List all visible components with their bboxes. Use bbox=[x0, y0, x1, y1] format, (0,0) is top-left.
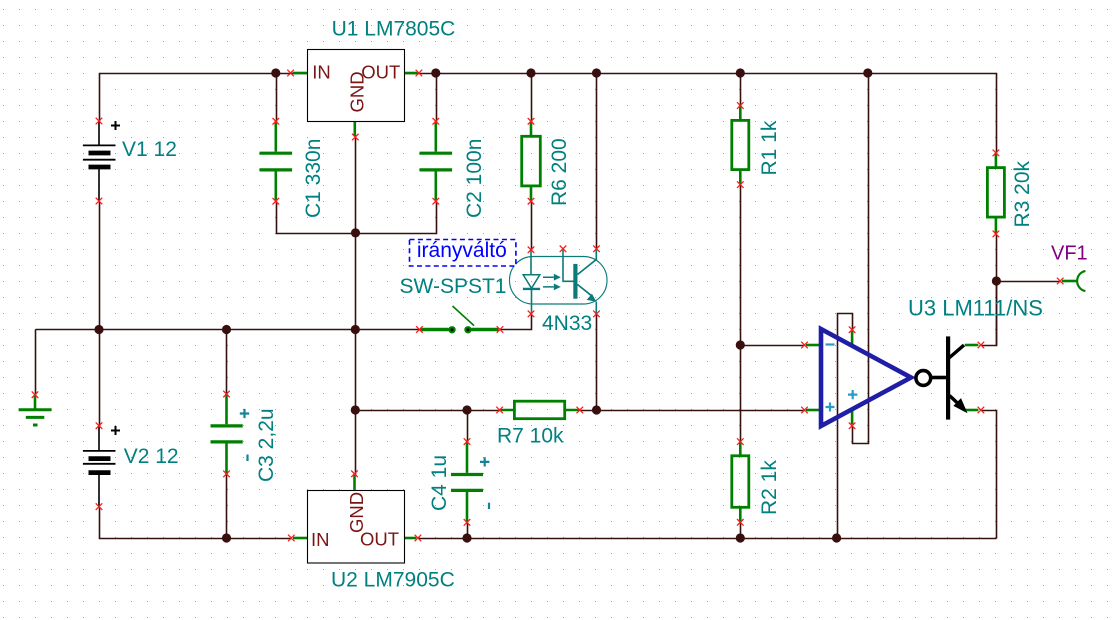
svg-text:GND: GND bbox=[346, 492, 367, 533]
svg-text:U3 LM111/NS: U3 LM111/NS bbox=[908, 296, 1043, 321]
svg-text:GND: GND bbox=[347, 71, 368, 112]
svg-text:R2 1k: R2 1k bbox=[758, 460, 781, 515]
svg-text:V2 12: V2 12 bbox=[124, 445, 179, 468]
svg-text:irányváltó: irányváltó bbox=[417, 239, 507, 262]
svg-text:R3 20k: R3 20k bbox=[1011, 160, 1034, 227]
svg-text:R6 200: R6 200 bbox=[548, 138, 571, 206]
svg-text:IN: IN bbox=[311, 529, 330, 550]
svg-text:C2 100n: C2 100n bbox=[463, 139, 486, 218]
svg-text:V1 12: V1 12 bbox=[122, 138, 177, 161]
svg-text:U2 LM7905C: U2 LM7905C bbox=[331, 568, 455, 591]
svg-text:4N33: 4N33 bbox=[542, 312, 592, 335]
svg-text:C4 1u: C4 1u bbox=[428, 455, 451, 511]
svg-text:R1 1k: R1 1k bbox=[758, 120, 781, 175]
svg-text:VF1: VF1 bbox=[1051, 243, 1088, 265]
svg-text:SW-SPST1: SW-SPST1 bbox=[400, 275, 507, 298]
svg-text:IN: IN bbox=[312, 62, 331, 83]
svg-text:R7 10k: R7 10k bbox=[497, 425, 564, 448]
svg-text:U1 LM7805C: U1 LM7805C bbox=[332, 18, 456, 41]
svg-text:C3 2,2u: C3 2,2u bbox=[255, 408, 278, 482]
svg-text:C1 330n: C1 330n bbox=[302, 139, 325, 218]
